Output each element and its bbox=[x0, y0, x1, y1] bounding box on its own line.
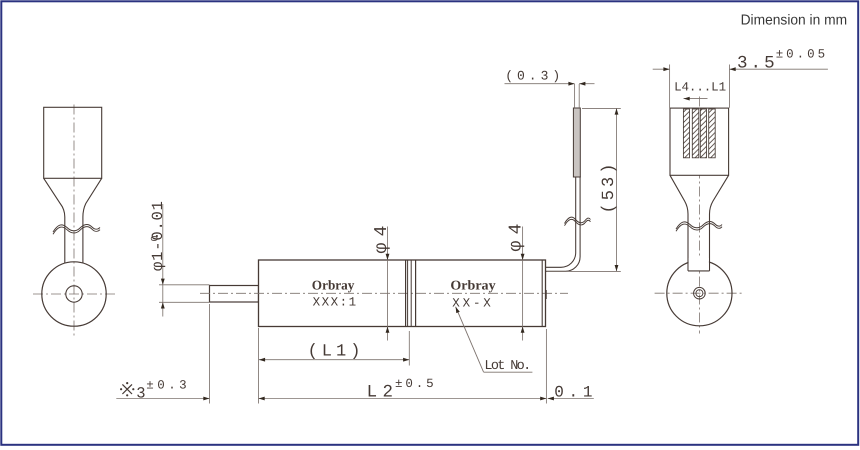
left view bearing circle bbox=[42, 262, 106, 326]
right view motor body rectangle bbox=[670, 108, 729, 175]
right view taper left side bbox=[670, 175, 688, 271]
right view break squiggle bbox=[676, 221, 722, 229]
svg-text:Orbray: Orbray bbox=[312, 278, 355, 293]
left view vertical centerline bbox=[73, 105, 75, 336]
lead wire inner edge bbox=[546, 176, 576, 267]
right view vertical centerline bbox=[698, 97, 700, 334]
dimension *3 extension line (shaft tip) bbox=[209, 304, 211, 404]
svg-text:±0.05: ±0.05 bbox=[776, 48, 825, 62]
dimension L1 line bbox=[259, 359, 409, 361]
dimension L2 line bbox=[259, 398, 547, 400]
wire insulated end segment bbox=[573, 108, 580, 177]
svg-text:0: 0 bbox=[150, 235, 161, 241]
L4...L1 direction arrow bbox=[684, 98, 708, 100]
dimension 0.1 arrow bbox=[548, 397, 554, 401]
dimension L2 arrows bbox=[259, 397, 265, 401]
dimension 0.1 extension line (motor rear) bbox=[545, 329, 547, 404]
dimension 0.3 line bbox=[505, 83, 575, 85]
dimension phi4 motor arrows bbox=[521, 254, 525, 260]
right view center nut circles bbox=[694, 287, 706, 299]
wire break squiggle bbox=[565, 217, 591, 223]
svg-text:XXX:1: XXX:1 bbox=[313, 296, 357, 310]
dimension *3 arrow bbox=[203, 397, 209, 401]
output shaft bbox=[210, 286, 259, 303]
right view bearing circle bbox=[667, 261, 732, 326]
gearhead rear face line bbox=[405, 260, 407, 327]
svg-text:3.5: 3.5 bbox=[737, 54, 775, 74]
svg-text:L4...L1: L4...L1 bbox=[674, 81, 726, 95]
left view taper left side bbox=[44, 178, 65, 263]
ring line 1 bbox=[407, 260, 409, 327]
dimension 0.3 arrows bbox=[568, 82, 574, 86]
shaft tube covering circle bbox=[689, 258, 709, 270]
svg-text:0.1: 0.1 bbox=[554, 383, 592, 401]
dimension phi1 arrows bbox=[161, 279, 165, 285]
svg-text:Dimension in mm: Dimension in mm bbox=[741, 13, 848, 29]
terminal strip 4 (hatched) bbox=[709, 109, 716, 158]
ring line 2 bbox=[410, 260, 412, 327]
dimension L1/L2 extension line left (gearhead face) bbox=[258, 328, 260, 404]
gearhead + motor body outline bbox=[259, 260, 546, 327]
dimension 53 extension lines bbox=[582, 107, 621, 109]
right view horizontal centerline bbox=[655, 292, 745, 294]
dimension 3.5 arrows bbox=[663, 67, 669, 71]
left view taper right side bbox=[83, 178, 102, 263]
motor rear inner line bbox=[541, 260, 543, 327]
motor rear solder tick bbox=[545, 290, 547, 299]
dimension 3.5 line bbox=[653, 68, 670, 70]
left view shaft hole bbox=[66, 286, 82, 302]
terminal strip 1 (hatched) bbox=[683, 109, 689, 158]
terminal strip 2 (hatched) bbox=[692, 109, 699, 158]
dimension phi4 motor line bbox=[522, 227, 524, 341]
dimension phi1 text bbox=[149, 201, 167, 271]
dimension 53 arrows bbox=[615, 108, 619, 114]
main view horizontal centerline bbox=[200, 292, 568, 294]
dimension *3 reference mark bbox=[122, 384, 132, 394]
left view break squiggle bbox=[53, 224, 100, 232]
dimension *3 line bbox=[116, 398, 209, 400]
dimension phi1 extension lines bbox=[159, 284, 210, 286]
dimension 0.1 line bbox=[548, 398, 594, 400]
dimension 3.5 extension lines bbox=[669, 65, 671, 108]
shaft tube end cap bbox=[688, 270, 710, 272]
dimension phi4 gearhead arrows bbox=[386, 254, 390, 260]
dimension 0.3 extension / wire tip lines bbox=[574, 84, 576, 108]
motor front face line bbox=[415, 260, 417, 327]
svg-text:Lot No.: Lot No. bbox=[484, 359, 531, 374]
left view motor body rectangle bbox=[44, 107, 102, 178]
left view horizontal centerline bbox=[33, 293, 117, 295]
leader line to Lot No. bbox=[456, 307, 484, 372]
svg-text:3: 3 bbox=[136, 384, 145, 402]
svg-text:Orbray: Orbray bbox=[450, 278, 495, 293]
dimension 53 line bbox=[616, 108, 618, 271]
dimension L1 arrows bbox=[259, 358, 265, 362]
right view taper right side bbox=[710, 175, 729, 271]
lead wire outer edge bbox=[546, 176, 581, 271]
dimension phi1 line bbox=[162, 204, 164, 317]
dimension L1 extension line right bbox=[408, 331, 410, 366]
dimension phi4 gearhead line bbox=[387, 227, 389, 341]
terminal strip 3 (hatched) bbox=[700, 109, 706, 158]
